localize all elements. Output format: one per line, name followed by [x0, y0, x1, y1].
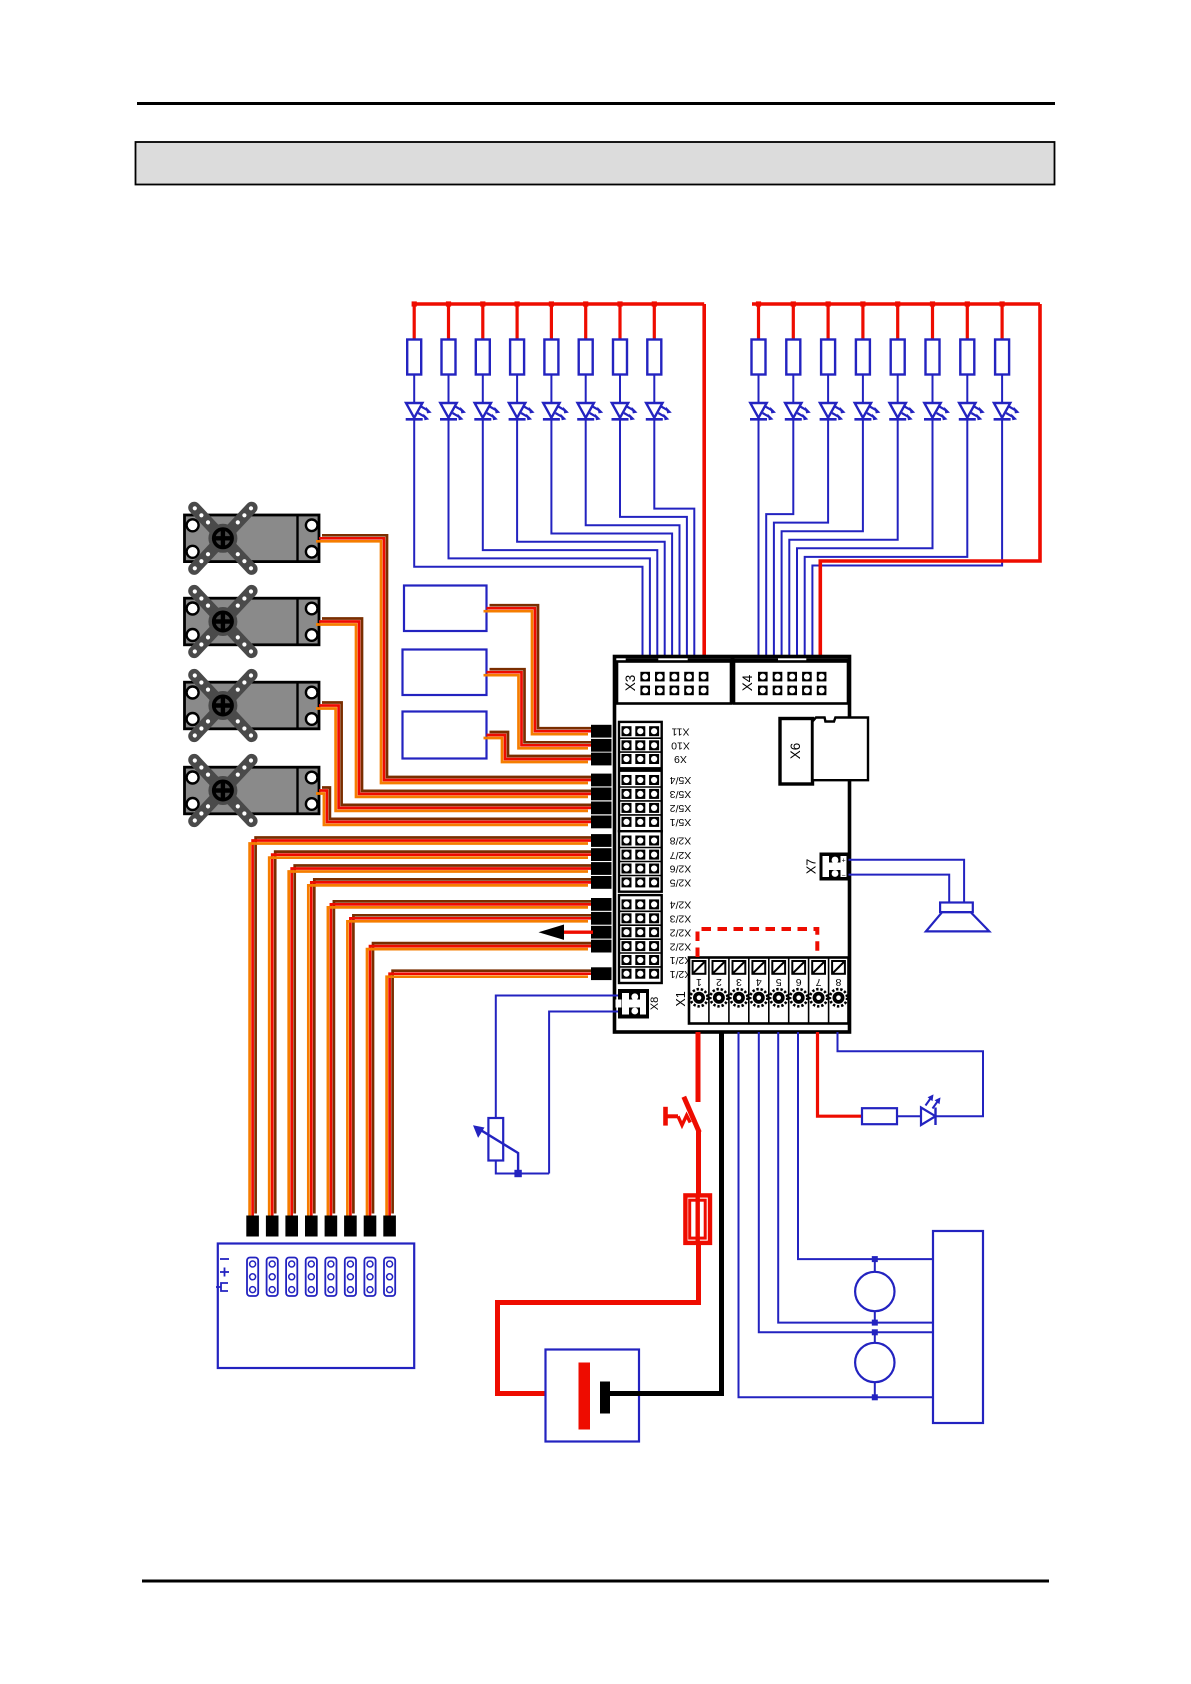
wire: [516, 375, 518, 404]
node bus tap 1: [412, 301, 417, 306]
connector X3: [617, 662, 731, 704]
svg-text:+: +: [842, 858, 846, 865]
resistor R5: [544, 340, 558, 375]
node bus tap 8: [652, 301, 657, 306]
svg-text:8: 8: [835, 976, 841, 988]
connector strip S3: [286, 1258, 297, 1297]
svg-text:X10: X10: [671, 740, 690, 752]
wire output cable X2-2: [269, 852, 594, 1220]
LED D17: [921, 1094, 941, 1125]
wire to module: [586, 419, 680, 659]
X3/X4 divider: [731, 657, 735, 705]
svg-text:7: 7: [816, 976, 822, 988]
svg-text:X11: X11: [671, 725, 689, 737]
connector strip S5: [325, 1258, 336, 1297]
node bus tap 13: [895, 301, 900, 306]
node bus tap 2: [446, 301, 451, 306]
left LED bank (8 channels): [406, 301, 705, 659]
servo plug P1: [246, 1216, 259, 1237]
wire LED supply bus: [412, 302, 704, 306]
node junction: [872, 1320, 878, 1326]
servo M3: [185, 673, 320, 737]
svg-text:X2/3: X2/3: [670, 913, 692, 925]
plug on row X2/7: [591, 848, 612, 861]
connector X6 card: [813, 718, 869, 781]
LED D2: [440, 403, 466, 420]
wire servo M4 cable: [316, 788, 594, 825]
LED D16: [994, 403, 1020, 420]
LED D1: [406, 403, 432, 420]
jumper (dashed) X1/1 to X1/7: [698, 929, 818, 957]
wire output cable X2-1: [250, 838, 594, 1220]
resistor R2: [442, 340, 456, 375]
wire resistor feed: [584, 304, 587, 340]
wire resistor feed: [792, 304, 795, 340]
LED D12: [854, 403, 880, 420]
wire resistor feed: [413, 304, 416, 340]
LED D11: [820, 403, 846, 420]
node bus tap 16: [1000, 301, 1005, 306]
plug on row X5/1: [591, 816, 612, 829]
resistor R7: [613, 340, 627, 375]
node bus tap 11: [826, 301, 831, 306]
wire X1/4 to motor 2: [759, 1032, 933, 1332]
connector X7: [820, 853, 849, 881]
LED D10: [785, 403, 811, 420]
servo M4: [185, 758, 320, 822]
resistor R9: [752, 340, 766, 375]
wire output cable X2-4: [308, 879, 594, 1219]
module box B2: [403, 650, 487, 696]
node bus tap 3: [480, 301, 485, 306]
wire resistor feed: [861, 304, 864, 340]
wire motor2 leads: [874, 1332, 876, 1343]
wire: [932, 375, 934, 404]
wire box B2 cable: [484, 669, 595, 748]
wire X7+ to speaker: [849, 860, 965, 903]
resistor R10: [786, 340, 800, 375]
wire: [448, 375, 450, 404]
LED D4: [509, 403, 535, 420]
servo plug P6: [344, 1216, 357, 1237]
wire switch to fuse: [696, 1131, 701, 1196]
svg-text:X5/2: X5/2: [670, 802, 692, 814]
resistor R18: [862, 1108, 897, 1124]
wire to module: [774, 419, 828, 659]
right LED bank (8 channels): [750, 301, 1040, 659]
motor M6: [855, 1343, 894, 1382]
servo plug P7: [364, 1216, 377, 1237]
LED D8: [646, 403, 672, 420]
svg-text:X5/4: X5/4: [670, 774, 692, 786]
wire box B3 cable: [484, 732, 595, 762]
svg-text:X8: X8: [649, 997, 661, 1010]
svg-text:3: 3: [736, 976, 742, 988]
wire to module: [782, 419, 863, 659]
wire X1/7 to resistor: [818, 1032, 863, 1116]
node junction: [872, 1329, 878, 1335]
svg-text:X6: X6: [788, 743, 803, 760]
connector strip S1: [247, 1258, 258, 1297]
svg-text:2: 2: [716, 976, 722, 988]
wire red bus drop to X3: [702, 304, 706, 659]
svg-text:6: 6: [796, 976, 802, 988]
wire: [862, 375, 864, 404]
node junction: [872, 1394, 878, 1400]
resistor R15: [960, 340, 974, 375]
svg-text:X9: X9: [674, 753, 687, 765]
svg-text:4: 4: [756, 976, 762, 988]
wire X8 to potentiometer: [496, 996, 618, 1119]
LED D7: [612, 403, 638, 420]
svg-text:X2/4: X2/4: [670, 899, 692, 911]
resistor R1: [407, 340, 421, 375]
svg-text:X4: X4: [740, 674, 755, 691]
connector strip S6: [345, 1258, 356, 1297]
wire output cable X2-3: [289, 866, 594, 1220]
wire to module: [517, 419, 665, 659]
motor M5: [855, 1272, 894, 1311]
LED D14: [924, 403, 950, 420]
servo M2: [185, 589, 320, 653]
plug on row X2/6: [591, 862, 612, 875]
arrow to X2/2: [539, 925, 565, 940]
wire servo M3 cable: [316, 703, 594, 811]
board top inner edge segments: [626, 658, 849, 660]
wire: [792, 375, 794, 404]
wire: [897, 375, 899, 404]
wire to module: [551, 419, 672, 659]
plug on row X9: [591, 753, 612, 766]
wire motor1 leads: [874, 1259, 876, 1272]
resistor R11: [821, 340, 835, 375]
resistor R4: [510, 340, 524, 375]
servo plug P8: [383, 1216, 396, 1237]
wire X1/6 to motor 1: [798, 1032, 933, 1259]
wire X7- to speaker: [849, 875, 950, 903]
wire: [550, 375, 552, 404]
wire: [966, 375, 968, 404]
terminal board (lamp distribution): [218, 1244, 414, 1369]
wire resistor feed: [966, 304, 969, 340]
wire output cable X2-6: [347, 915, 594, 1219]
plug on row X2/2: [591, 940, 612, 953]
top rule: [137, 102, 1055, 105]
module box B1: [404, 586, 487, 632]
node junction: [872, 1256, 878, 1262]
wire to module: [797, 419, 933, 659]
polarity symbols: [216, 1259, 229, 1291]
plug on row X5/4: [591, 774, 612, 787]
plug on row X2/1: [591, 967, 612, 980]
wire resistor to LED: [897, 1115, 921, 1117]
servo M1: [185, 506, 320, 570]
wire resistor feed: [481, 304, 484, 340]
LED D13: [889, 403, 915, 420]
wire to module: [449, 419, 650, 659]
module board outline: [615, 657, 850, 1033]
resistor R16: [995, 340, 1009, 375]
connector strip S7: [364, 1258, 375, 1297]
wire to module: [789, 419, 897, 659]
connector strip S4: [306, 1258, 317, 1297]
connector X4: [734, 662, 848, 704]
connector X8: [616, 989, 650, 1019]
wire to module: [414, 419, 642, 659]
wire battery minus (X1/2): [610, 1032, 722, 1394]
speaker LS1: [926, 903, 989, 932]
node bus tap 10: [791, 301, 796, 306]
pin header groups X9-X11 X5 X2: [619, 722, 691, 983]
wire servo M1 cable: [316, 535, 594, 783]
wire: [827, 375, 829, 404]
wire battery plus (X1/1): [696, 1032, 701, 1102]
node pot junction: [514, 1170, 521, 1177]
wire box B1 cable: [484, 605, 595, 734]
node bus tap 9: [756, 301, 761, 306]
wire resistor feed: [931, 304, 934, 340]
battery box: [546, 1350, 640, 1442]
node bus tap 6: [583, 301, 588, 306]
plug on row X5/3: [591, 788, 612, 801]
wire resistor feed: [757, 304, 760, 340]
bottom rule: [142, 1580, 1049, 1583]
servo plug P5: [325, 1216, 338, 1237]
plug on row X2/4: [591, 898, 612, 911]
wire resistor feed: [618, 304, 621, 340]
wire resistor feed: [653, 304, 656, 340]
wire X1/5 to motor 1: [778, 1032, 933, 1323]
LED D9: [750, 403, 776, 420]
battery plus plate: [579, 1363, 591, 1430]
terminal block X1: [689, 958, 849, 1024]
wire X2/2 stub: [563, 931, 594, 934]
wire resistor feed: [826, 304, 829, 340]
wire to module: [758, 419, 760, 659]
wire resistor feed: [896, 304, 899, 340]
resistor R6: [579, 340, 593, 375]
node bus tap 5: [549, 301, 554, 306]
wire to module: [805, 419, 968, 659]
wire resistor feed: [550, 304, 553, 340]
resistor R14: [926, 340, 940, 375]
wire output cable X2-7: [367, 943, 594, 1219]
resistor R12: [856, 340, 870, 375]
node bus tap 14: [930, 301, 935, 306]
title bar: [136, 142, 1055, 185]
svg-text:X1: X1: [674, 991, 688, 1006]
LED D3: [474, 403, 500, 420]
gearbox housing: [933, 1231, 983, 1423]
node bus tap 12: [860, 301, 865, 306]
wire: [1001, 375, 1003, 404]
svg-text:5: 5: [776, 976, 782, 988]
battery minus plate: [600, 1382, 610, 1414]
potentiometer R17: [488, 1118, 503, 1161]
wire resistor feed: [515, 304, 518, 340]
resistor R13: [891, 340, 905, 375]
plug on row X11: [591, 725, 612, 738]
switch S1: [666, 1097, 700, 1133]
LED D5: [543, 403, 569, 420]
plug on row X5/2: [591, 802, 612, 815]
plug on row X2/3: [591, 912, 612, 925]
wire: [585, 375, 587, 404]
wire: [482, 375, 484, 404]
svg-text:X5/3: X5/3: [670, 788, 692, 800]
svg-text:X2/2: X2/2: [670, 940, 692, 952]
svg-text:X5/1: X5/1: [670, 816, 692, 828]
wire: [413, 375, 415, 404]
LED D15: [959, 403, 985, 420]
wire output cable X2-5: [328, 901, 594, 1219]
wire fuse to battery: [498, 1244, 699, 1394]
wire wiper to X8: [549, 1012, 618, 1174]
servo plug P4: [305, 1216, 318, 1237]
pot wiper arrow: [473, 1125, 518, 1173]
wire resistor feed: [447, 304, 450, 340]
wire red bus drop to X4: [820, 304, 1040, 659]
connector strip S2: [267, 1258, 278, 1297]
resistor R8: [647, 340, 661, 375]
plug on row X2/8: [591, 834, 612, 847]
plug on row X10: [591, 739, 612, 752]
wire servo M2 cable: [316, 619, 594, 797]
wire to module: [483, 419, 658, 659]
node bus tap 7: [617, 301, 622, 306]
svg-text:X2/8: X2/8: [670, 835, 692, 847]
wire pot lower lead: [496, 1161, 549, 1174]
wire LED to X1/8: [838, 1032, 984, 1116]
wire X1/3 to motor 2: [739, 1032, 934, 1397]
wire to module: [654, 419, 694, 659]
wire: [653, 375, 655, 404]
svg-text:X2/7: X2/7: [670, 849, 692, 861]
plug on row X2/2: [591, 926, 612, 939]
svg-text:X2/6: X2/6: [670, 863, 692, 875]
servo plug P3: [285, 1216, 298, 1237]
svg-text:−: −: [842, 873, 846, 880]
node bus tap 15: [965, 301, 970, 306]
svg-text:X2/5: X2/5: [670, 877, 692, 889]
servo plug P2: [266, 1216, 279, 1237]
wire output cable X2-8: [387, 971, 594, 1220]
wire: [619, 375, 621, 404]
wire to module: [620, 419, 687, 659]
wire resistor feed: [1000, 304, 1003, 340]
svg-text:X3: X3: [623, 675, 638, 692]
plug on row X2/5: [591, 876, 612, 889]
connector X6 socket: [780, 719, 813, 785]
wire to module: [766, 419, 793, 659]
node bus tap 4: [515, 301, 520, 306]
wire: [758, 375, 760, 404]
svg-text:1: 1: [696, 976, 702, 988]
module box B3: [403, 712, 487, 759]
LED D6: [577, 403, 603, 420]
svg-text:X7: X7: [804, 859, 818, 874]
fuse F1: [685, 1195, 710, 1243]
wire LED supply bus: [752, 302, 1040, 306]
connector strip S8: [384, 1258, 395, 1297]
wire to module: [812, 419, 1002, 659]
resistor R3: [476, 340, 490, 375]
svg-text:X2/2: X2/2: [670, 926, 692, 938]
